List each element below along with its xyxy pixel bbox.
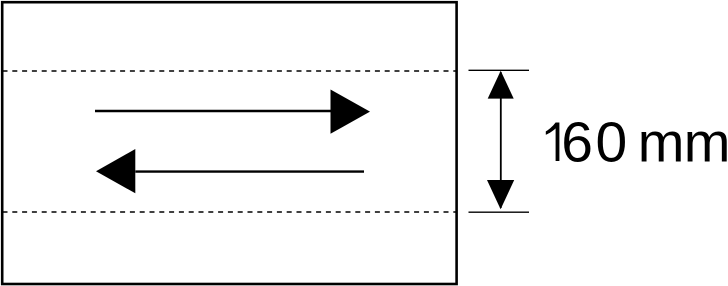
roadway outline rectangle: [2, 2, 456, 284]
bottom extension tick: [469, 211, 530, 213]
left-direction arrow shaft: [136, 170, 365, 172]
bottom dashed lane line: [3, 211, 457, 213]
right-direction arrow shaft: [95, 110, 333, 112]
top extension tick: [469, 69, 530, 71]
left-direction arrow head: [96, 149, 135, 193]
dimension label digit 1: [546, 123, 560, 162]
vertical dimension line: [500, 72, 502, 208]
top dashed lane line: [3, 70, 457, 72]
dimension arrow head down: [487, 180, 514, 209]
svg-text:mm: mm: [638, 110, 728, 173]
dimension arrow head up: [488, 71, 514, 99]
right-direction arrow head: [331, 90, 371, 134]
